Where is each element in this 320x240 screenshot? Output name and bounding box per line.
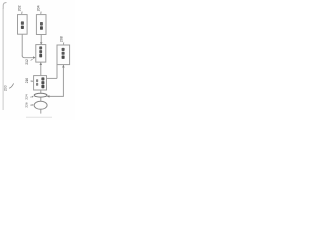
page frame rounded top-left corner [3, 3, 6, 10]
box D rotated text line 2 [62, 52, 65, 55]
box B rotated text line 1 [40, 22, 43, 26]
curved leader line [9, 83, 14, 88]
box B rotated text line 2 [40, 26, 43, 30]
leader arrowhead at circle left [32, 104, 34, 106]
page top border bar [4, 1, 75, 3]
lens (flat ellipse) [34, 93, 47, 97]
page frame left border lower [2, 70, 4, 110]
box E rotated text col1 line1 [36, 79, 38, 82]
wire A down (vertical) [21, 34, 23, 56]
arrowhead into lens right tip [47, 95, 50, 98]
box C rotated text line 1 [39, 46, 42, 49]
wire E bottom to lens [40, 90, 42, 93]
wire lens tip to right elbow (horizontal) [47, 95, 63, 97]
leader tick from numeral to E left edge [30, 80, 32, 82]
leader arrowhead at E left edge [32, 80, 34, 82]
page frame bottom border (faint) [26, 116, 52, 118]
box A rotated text line 1 [21, 21, 24, 24]
box E rotated text col2 line2 [41, 81, 44, 84]
leader tick from numeral to box A [21, 12, 23, 14]
leader tick from numeral toward C corner [31, 59, 33, 60]
page frame left border [2, 8, 4, 70]
wire up into D bottom-left (vertical) [56, 65, 58, 79]
box D rotated text line 1 [62, 48, 65, 51]
svg-text:212: 212 [25, 59, 29, 65]
box E rotated text col2 line3 [41, 85, 44, 88]
svg-text:224: 224 [25, 94, 29, 99]
wire D bottom down to antenna line (vertical) [62, 65, 64, 97]
arrowhead into C bottom [40, 62, 43, 65]
box C rotated text line 3 [39, 54, 42, 58]
circle (round ellipse) [34, 101, 47, 109]
leader arrow from numeral to circle [30, 104, 32, 106]
box C rotated text line 2 [39, 50, 42, 53]
wire B to C (vertical) [40, 35, 42, 45]
box D rotated text line 3 [62, 56, 65, 59]
svg-text:204: 204 [37, 5, 41, 11]
svg-text:202: 202 [18, 5, 22, 11]
wire C down to E (vertical) [40, 62, 42, 75]
leader tick from numeral to box B [40, 12, 42, 14]
box D (right block) [57, 45, 70, 65]
box B (top-middle block) [36, 15, 46, 35]
wire below circle [40, 109, 42, 113]
wire A elbow to C (horizontal) [22, 56, 33, 58]
svg-text:200: 200 [3, 85, 7, 91]
box C (middle block) [36, 45, 46, 63]
arrowhead into C top [40, 42, 43, 44]
wire lens to circle [40, 97, 42, 101]
box E (lower block) [34, 76, 47, 90]
box A rotated text line 2 [21, 26, 24, 29]
leader arrow from numeral to lens [30, 96, 32, 98]
leader arrowhead at lens tip [32, 96, 34, 98]
svg-text:216: 216 [25, 78, 29, 84]
arrowhead into D bottom [62, 65, 65, 68]
wire E right to D (horizontal) [47, 77, 57, 79]
box E rotated text col1 line2 [36, 83, 38, 86]
box A (top-left block) [18, 15, 28, 35]
leader tick from numeral to box D [63, 42, 65, 44]
arrowhead into C left [33, 56, 36, 59]
svg-text:226: 226 [25, 102, 29, 107]
svg-text:208: 208 [60, 36, 64, 42]
box E rotated text col2 line1 [41, 77, 44, 80]
